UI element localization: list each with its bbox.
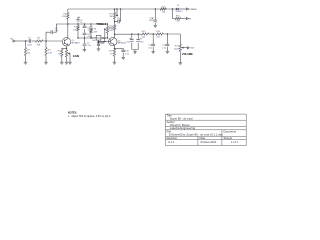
- svg-text:1N5817: 1N5817: [175, 11, 183, 13]
- svg-text:.047u: .047u: [27, 44, 32, 46]
- svg-text:Document: Document: [224, 129, 237, 133]
- svg-text:OUT: OUT: [190, 48, 195, 50]
- svg-text:47u: 47u: [140, 41, 143, 43]
- svg-text:Latecba Engineering: Latecba Engineering: [170, 126, 196, 130]
- svg-text:2.2K: 2.2K: [109, 28, 114, 30]
- svg-text:.22u: .22u: [87, 45, 91, 47]
- svg-text:47u: 47u: [117, 20, 120, 22]
- svg-text:10K: 10K: [73, 29, 77, 31]
- svg-text:1. Adjust TR1 for approx. 4.5: 1. Adjust TR1 for approx. 4.5V on Q2-C.: [68, 115, 111, 118]
- svg-text:Date: Date: [200, 136, 206, 140]
- svg-text:Sheets: Sheets: [224, 136, 233, 140]
- svg-text:POWER: POWER: [189, 9, 197, 11]
- svg-text:100u: 100u: [149, 20, 154, 22]
- svg-text:MPSA18: MPSA18: [118, 42, 127, 45]
- svg-text:10K: 10K: [37, 44, 41, 46]
- svg-text:Super 80 - dc mod v0.1.1.dsn: Super 80 - dc mod v0.1.1.dsn: [187, 133, 224, 137]
- svg-text:0.1.1: 0.1.1: [168, 140, 175, 144]
- svg-text:20K: 20K: [109, 30, 113, 32]
- svg-text:TREBLE: TREBLE: [96, 22, 106, 26]
- svg-text:.1u: .1u: [80, 22, 83, 24]
- svg-text:4.7K: 4.7K: [48, 52, 53, 54]
- svg-text:MPSA18: MPSA18: [72, 42, 81, 45]
- svg-text:50K: 50K: [92, 40, 96, 42]
- svg-text:20K: 20K: [94, 31, 98, 33]
- svg-text:2.2u: 2.2u: [162, 47, 166, 49]
- svg-text:100K: 100K: [174, 48, 179, 50]
- svg-text:47u: 47u: [126, 41, 129, 43]
- svg-text:1M: 1M: [27, 52, 30, 54]
- svg-text:GAIN: GAIN: [73, 54, 79, 58]
- svg-text:50K: 50K: [109, 16, 113, 18]
- svg-text:.1u: .1u: [87, 29, 90, 31]
- svg-text:Chuck D. Bones: Chuck D. Bones: [170, 123, 190, 127]
- svg-text:04-Dec-2021: 04-Dec-2021: [201, 140, 217, 144]
- svg-text:1 of 1: 1 of 1: [231, 140, 238, 144]
- svg-text:VOLUME: VOLUME: [182, 52, 193, 56]
- svg-text:1.2M: 1.2M: [61, 16, 66, 18]
- svg-text:2.2u: 2.2u: [148, 47, 152, 49]
- svg-text:BASS: BASS: [97, 40, 104, 44]
- svg-text:2.2u: 2.2u: [125, 53, 129, 55]
- svg-text:Revision: Revision: [167, 136, 178, 140]
- svg-text:D:\Users\Chu...: D:\Users\Chu...: [169, 133, 188, 137]
